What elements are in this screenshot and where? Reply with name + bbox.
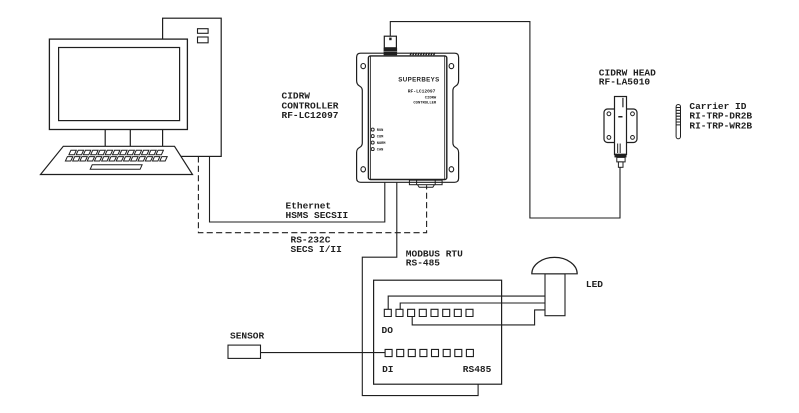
svg-text:LED: LED bbox=[586, 279, 603, 290]
sensor bbox=[228, 345, 261, 358]
monitor stand bbox=[105, 130, 130, 147]
keyboard keys row 2 bbox=[65, 157, 167, 161]
monitor bbox=[49, 39, 187, 129]
head cable connector bbox=[617, 157, 625, 162]
head bottom band bbox=[615, 154, 627, 158]
tower drive slot 1 bbox=[198, 29, 209, 34]
terminal box bbox=[374, 280, 502, 384]
svg-text:RF-LA5010: RF-LA5010 bbox=[599, 77, 651, 88]
flange screw hole bottom-left bbox=[361, 167, 366, 172]
head flange hole bottom-right bbox=[631, 136, 635, 140]
wire DO2 to LED bbox=[400, 303, 545, 309]
CIDRW head flange bbox=[604, 109, 637, 143]
wire DO1 to LED bbox=[388, 296, 545, 309]
antenna base bbox=[384, 48, 398, 56]
computer tower bbox=[163, 18, 222, 156]
svg-text:SECS I/II: SECS I/II bbox=[291, 244, 342, 255]
svg-text:RUN: RUN bbox=[377, 129, 383, 133]
svg-text:RI-TRP-WR2B: RI-TRP-WR2B bbox=[689, 120, 752, 131]
svg-text:RF-LC12097: RF-LC12097 bbox=[282, 110, 339, 121]
antenna connector bbox=[384, 36, 396, 48]
keyboard bbox=[41, 146, 193, 174]
svg-text:CAN: CAN bbox=[377, 149, 383, 153]
wire DO3 to LED bbox=[412, 310, 545, 325]
wire RF cable controller-antenna to head bbox=[390, 22, 620, 218]
svg-text:CIDRW: CIDRW bbox=[425, 96, 437, 100]
wire sensor to DI bbox=[261, 352, 386, 354]
head flange hole top-left bbox=[607, 112, 611, 116]
svg-text:RS485: RS485 bbox=[463, 364, 492, 375]
svg-text:HSMS SECSII: HSMS SECSII bbox=[286, 210, 349, 221]
wire MODBUS RTU RS-485 (controller to terminal box) bbox=[362, 180, 478, 396]
LED indicator NORM bbox=[371, 141, 374, 144]
CIDRW head body bbox=[615, 97, 627, 155]
LED indicator COM bbox=[371, 135, 374, 138]
svg-text:SUPERBEYS: SUPERBEYS bbox=[398, 77, 439, 84]
head flange hole top-right bbox=[631, 112, 635, 116]
wire RS-232C dashed (PC to controller DB9) bbox=[198, 156, 426, 232]
flange screw hole top-left bbox=[361, 64, 366, 69]
DB9 connector on controller bottom bbox=[409, 180, 442, 185]
LED indicator CAN bbox=[371, 148, 374, 151]
tower drive slot 2 bbox=[198, 37, 209, 43]
DO terminals bbox=[384, 309, 473, 316]
svg-text:CONTROLLER: CONTROLLER bbox=[413, 102, 437, 106]
svg-text:RS-485: RS-485 bbox=[406, 258, 441, 269]
keyboard spacebar bbox=[90, 165, 142, 170]
svg-text:NORM: NORM bbox=[377, 142, 386, 146]
DI terminals bbox=[385, 349, 473, 356]
svg-text:DI: DI bbox=[382, 364, 393, 375]
controller top vent hatch bbox=[410, 53, 436, 56]
controller body bbox=[368, 56, 446, 180]
LED stem bbox=[545, 274, 565, 316]
svg-text:DO: DO bbox=[382, 325, 394, 336]
LED indicator RUN bbox=[371, 128, 374, 131]
carrier ID transponder capsule bbox=[676, 105, 680, 139]
svg-text:RF-LC12097: RF-LC12097 bbox=[408, 89, 436, 95]
wire Ethernet (PC to controller) bbox=[210, 156, 385, 222]
svg-text:SENSOR: SENSOR bbox=[230, 331, 265, 342]
LED dome bbox=[532, 257, 577, 273]
head flange hole bottom-left bbox=[607, 136, 611, 140]
head mid tick bbox=[618, 116, 622, 118]
op CIDRW controller U1 mounting flange bbox=[357, 53, 459, 182]
keyboard keys row 1 bbox=[69, 150, 163, 154]
flange screw hole top-right bbox=[449, 64, 454, 69]
flange screw hole bottom-right bbox=[449, 167, 454, 172]
svg-text:COM: COM bbox=[377, 136, 383, 140]
